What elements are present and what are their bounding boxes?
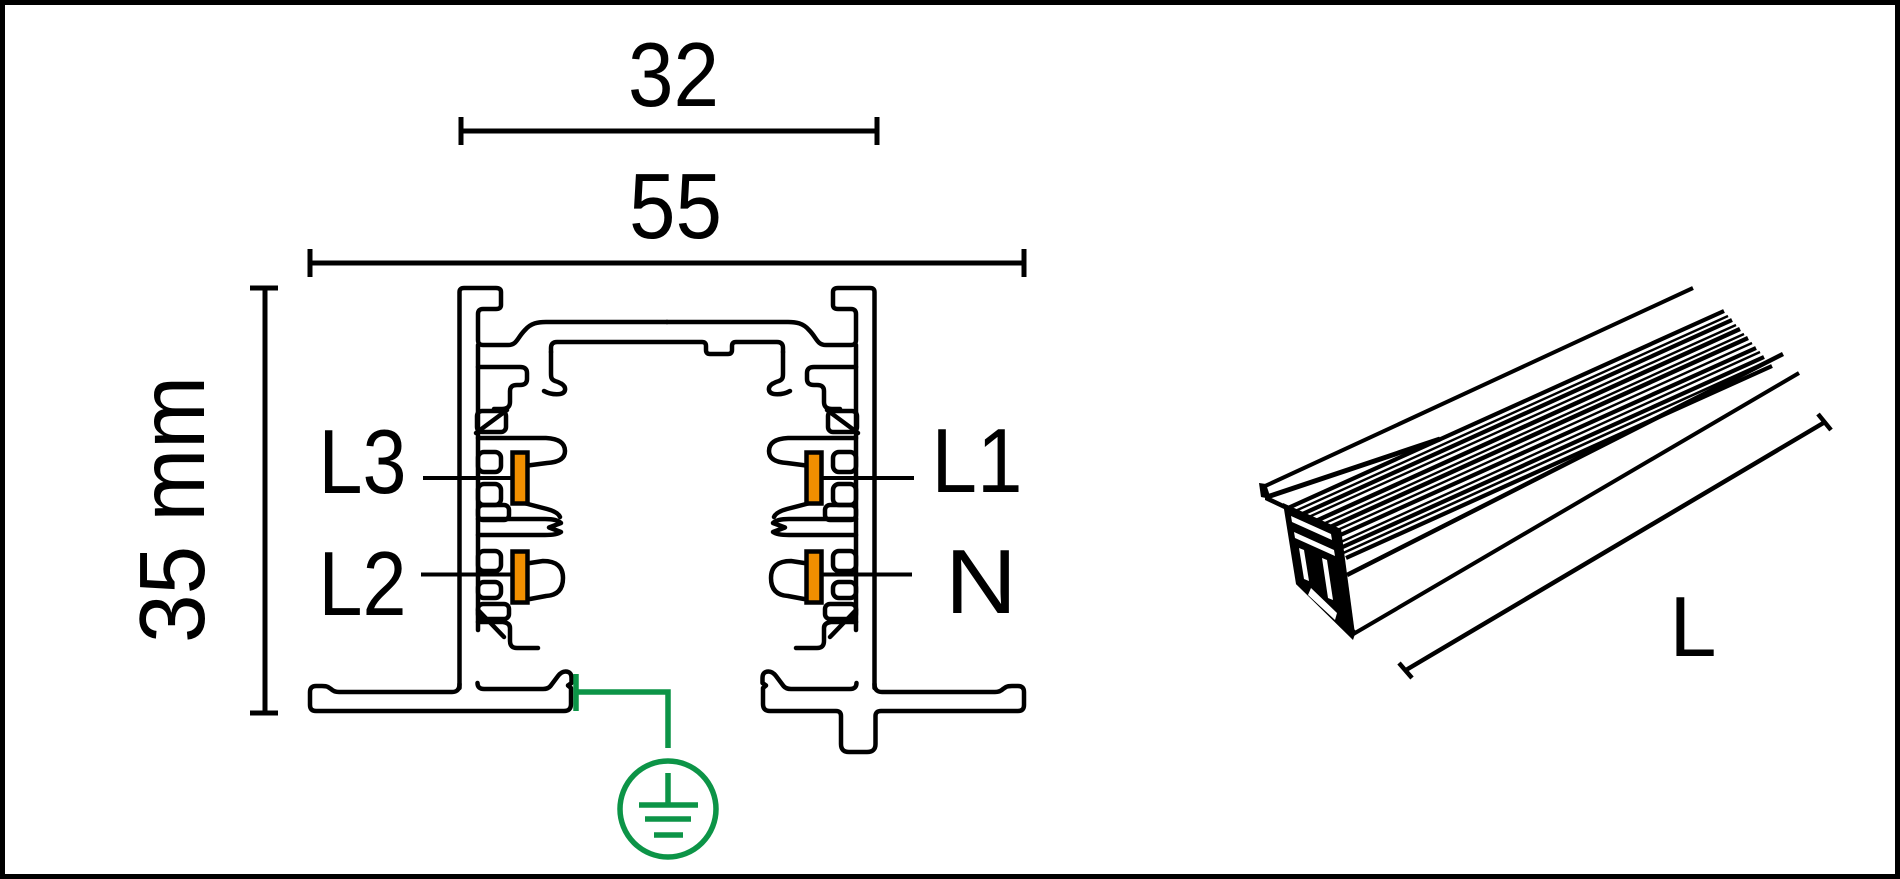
svg-text:L1: L1 [932, 411, 1023, 512]
svg-text:N: N [945, 532, 1017, 633]
svg-text:L: L [1670, 580, 1717, 675]
svg-text:35 mm: 35 mm [120, 376, 224, 643]
svg-text:L3: L3 [319, 412, 407, 513]
svg-text:55: 55 [629, 154, 722, 258]
svg-text:32: 32 [628, 25, 719, 126]
svg-text:L2: L2 [319, 534, 407, 635]
